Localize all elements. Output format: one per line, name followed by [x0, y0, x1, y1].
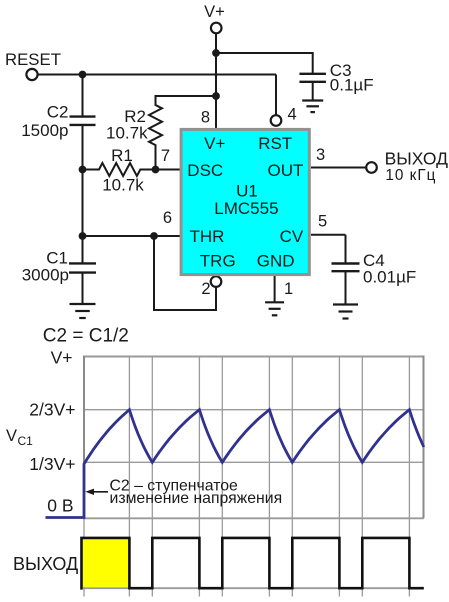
svg-text:U1: U1 — [236, 182, 258, 201]
svg-text:RST: RST — [258, 134, 292, 153]
svg-text:R1: R1 — [111, 146, 133, 165]
svg-text:7: 7 — [161, 147, 170, 165]
svg-text:LMC555: LMC555 — [214, 199, 278, 218]
svg-text:V: V — [6, 427, 17, 445]
svg-text:GND: GND — [257, 252, 295, 271]
svg-text:1: 1 — [284, 280, 293, 298]
svg-text:1500p: 1500p — [21, 121, 68, 140]
svg-text:C1: C1 — [18, 434, 34, 448]
svg-text:DSC: DSC — [187, 161, 223, 180]
svg-text:C2: C2 — [47, 102, 69, 121]
svg-text:5: 5 — [318, 213, 327, 231]
svg-text:V+: V+ — [51, 348, 73, 368]
svg-text:TRG: TRG — [200, 252, 236, 271]
svg-text:10.7k: 10.7k — [106, 124, 148, 143]
svg-text:10.7k: 10.7k — [102, 176, 144, 195]
svg-text:V+: V+ — [204, 3, 225, 21]
svg-text:6: 6 — [163, 209, 172, 227]
svg-text:0 В: 0 В — [47, 496, 73, 516]
svg-text:изменение напряжения: изменение напряжения — [110, 490, 283, 507]
svg-text:V+: V+ — [204, 134, 225, 153]
svg-text:0.1µF: 0.1µF — [330, 76, 374, 95]
svg-text:8: 8 — [201, 109, 210, 127]
svg-text:10 кГц: 10 кГц — [385, 167, 436, 184]
svg-text:CV: CV — [280, 227, 304, 246]
svg-text:3000p: 3000p — [22, 266, 69, 285]
svg-text:THR: THR — [190, 227, 225, 246]
svg-text:RESET: RESET — [5, 50, 61, 69]
svg-text:ВЫХОД: ВЫХОД — [385, 149, 448, 169]
svg-text:2/3V+: 2/3V+ — [29, 400, 75, 420]
svg-text:ВЫХОД: ВЫХОД — [13, 554, 78, 574]
svg-text:2: 2 — [201, 280, 210, 298]
svg-text:1/3V+: 1/3V+ — [29, 454, 75, 474]
svg-text:3: 3 — [316, 146, 325, 164]
svg-text:C2 = C1/2: C2 = C1/2 — [43, 326, 129, 347]
svg-text:OUT: OUT — [268, 161, 304, 180]
svg-text:0.01µF: 0.01µF — [363, 268, 416, 287]
svg-text:4: 4 — [288, 106, 297, 124]
